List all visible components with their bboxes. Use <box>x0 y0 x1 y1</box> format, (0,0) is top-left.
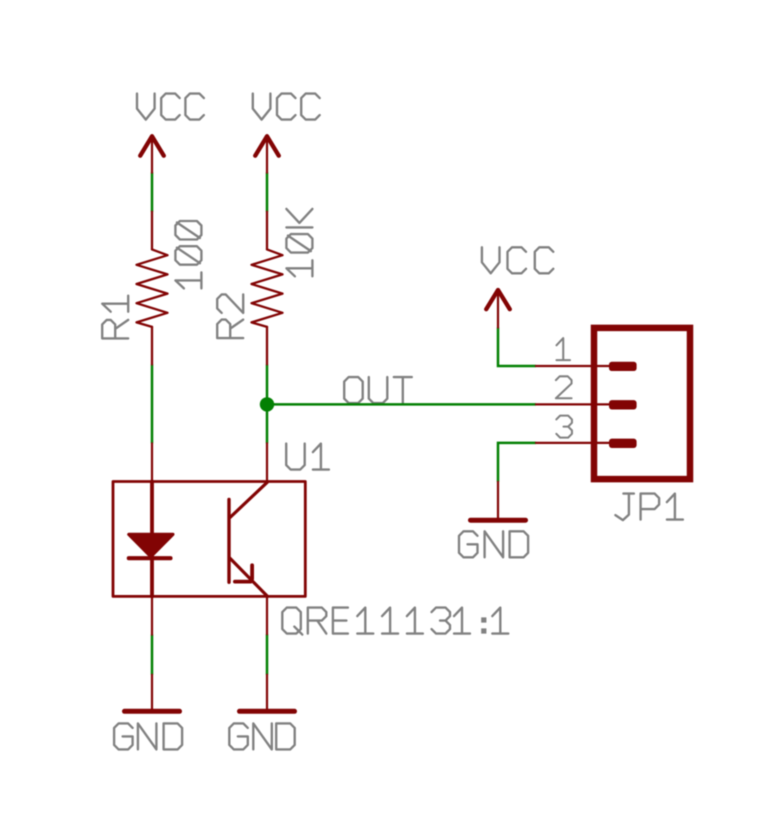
net label OUT <box>344 377 412 403</box>
wire U1 cathode to GND <box>151 635 154 675</box>
wire VCC to JP1 pin 1 <box>498 328 536 367</box>
opto sensor U1 box <box>113 482 305 597</box>
label JP1 <box>615 494 683 520</box>
GND symbol at JP1 <box>471 482 526 520</box>
wire node OUT to JP1 pin 2 <box>267 403 536 406</box>
wire JP1 pin 3 to GND <box>498 443 536 482</box>
label VCC at R2 <box>253 94 320 120</box>
resistor R1 <box>137 212 168 365</box>
label R2 (rotated) <box>217 294 243 338</box>
U1 pin cathode <box>151 596 153 634</box>
phototransistor of U1 <box>229 482 267 596</box>
U1 pin anode <box>151 443 153 481</box>
green net layer <box>152 172 536 674</box>
U1 pin collector <box>266 443 268 482</box>
dark red component layer <box>113 136 690 711</box>
JP1 pin 1 <box>536 362 637 371</box>
value 10K (rotated) <box>286 209 312 276</box>
pin number 1 of JP1 <box>556 338 570 360</box>
JP1 pin 3 <box>536 439 637 448</box>
supply symbol VCC at JP1 <box>486 290 510 328</box>
label VCC at JP1 <box>482 247 553 273</box>
wire node OUT to U1 collector <box>266 404 269 443</box>
label U1 <box>286 444 329 470</box>
pin number 3 of JP1 <box>556 416 572 438</box>
wire R2 to node OUT <box>266 364 269 404</box>
label R1 (rotated) <box>102 296 128 339</box>
value QRE11131:1 <box>282 608 508 635</box>
supply symbol VCC at R2 <box>255 136 279 172</box>
resistor R2 <box>252 212 283 365</box>
pin number 2 of JP1 <box>556 376 572 398</box>
supply symbol VCC at R1 <box>140 136 164 172</box>
GND symbol under LED <box>125 675 180 712</box>
connector JP1 box <box>594 328 690 479</box>
junction node OUT <box>260 397 274 411</box>
LED of U1 <box>129 482 173 597</box>
wire VCC to R1 <box>151 172 154 211</box>
label GND at JP1 <box>459 531 528 557</box>
wire U1 emitter to GND <box>266 634 269 675</box>
wire R1 to U1 anode <box>151 364 154 443</box>
JP1 pin 2 <box>536 400 637 409</box>
label GND under LED <box>114 723 182 749</box>
text layer <box>102 94 683 750</box>
colon of QRE11131:1 <box>481 617 486 633</box>
label VCC at R1 <box>137 94 204 120</box>
wire VCC to R2 <box>266 172 269 211</box>
value 100 (rotated) <box>175 221 201 288</box>
GND symbol under transistor <box>240 675 295 712</box>
U1 pin emitter <box>266 596 268 634</box>
label GND under transistor <box>229 723 294 749</box>
